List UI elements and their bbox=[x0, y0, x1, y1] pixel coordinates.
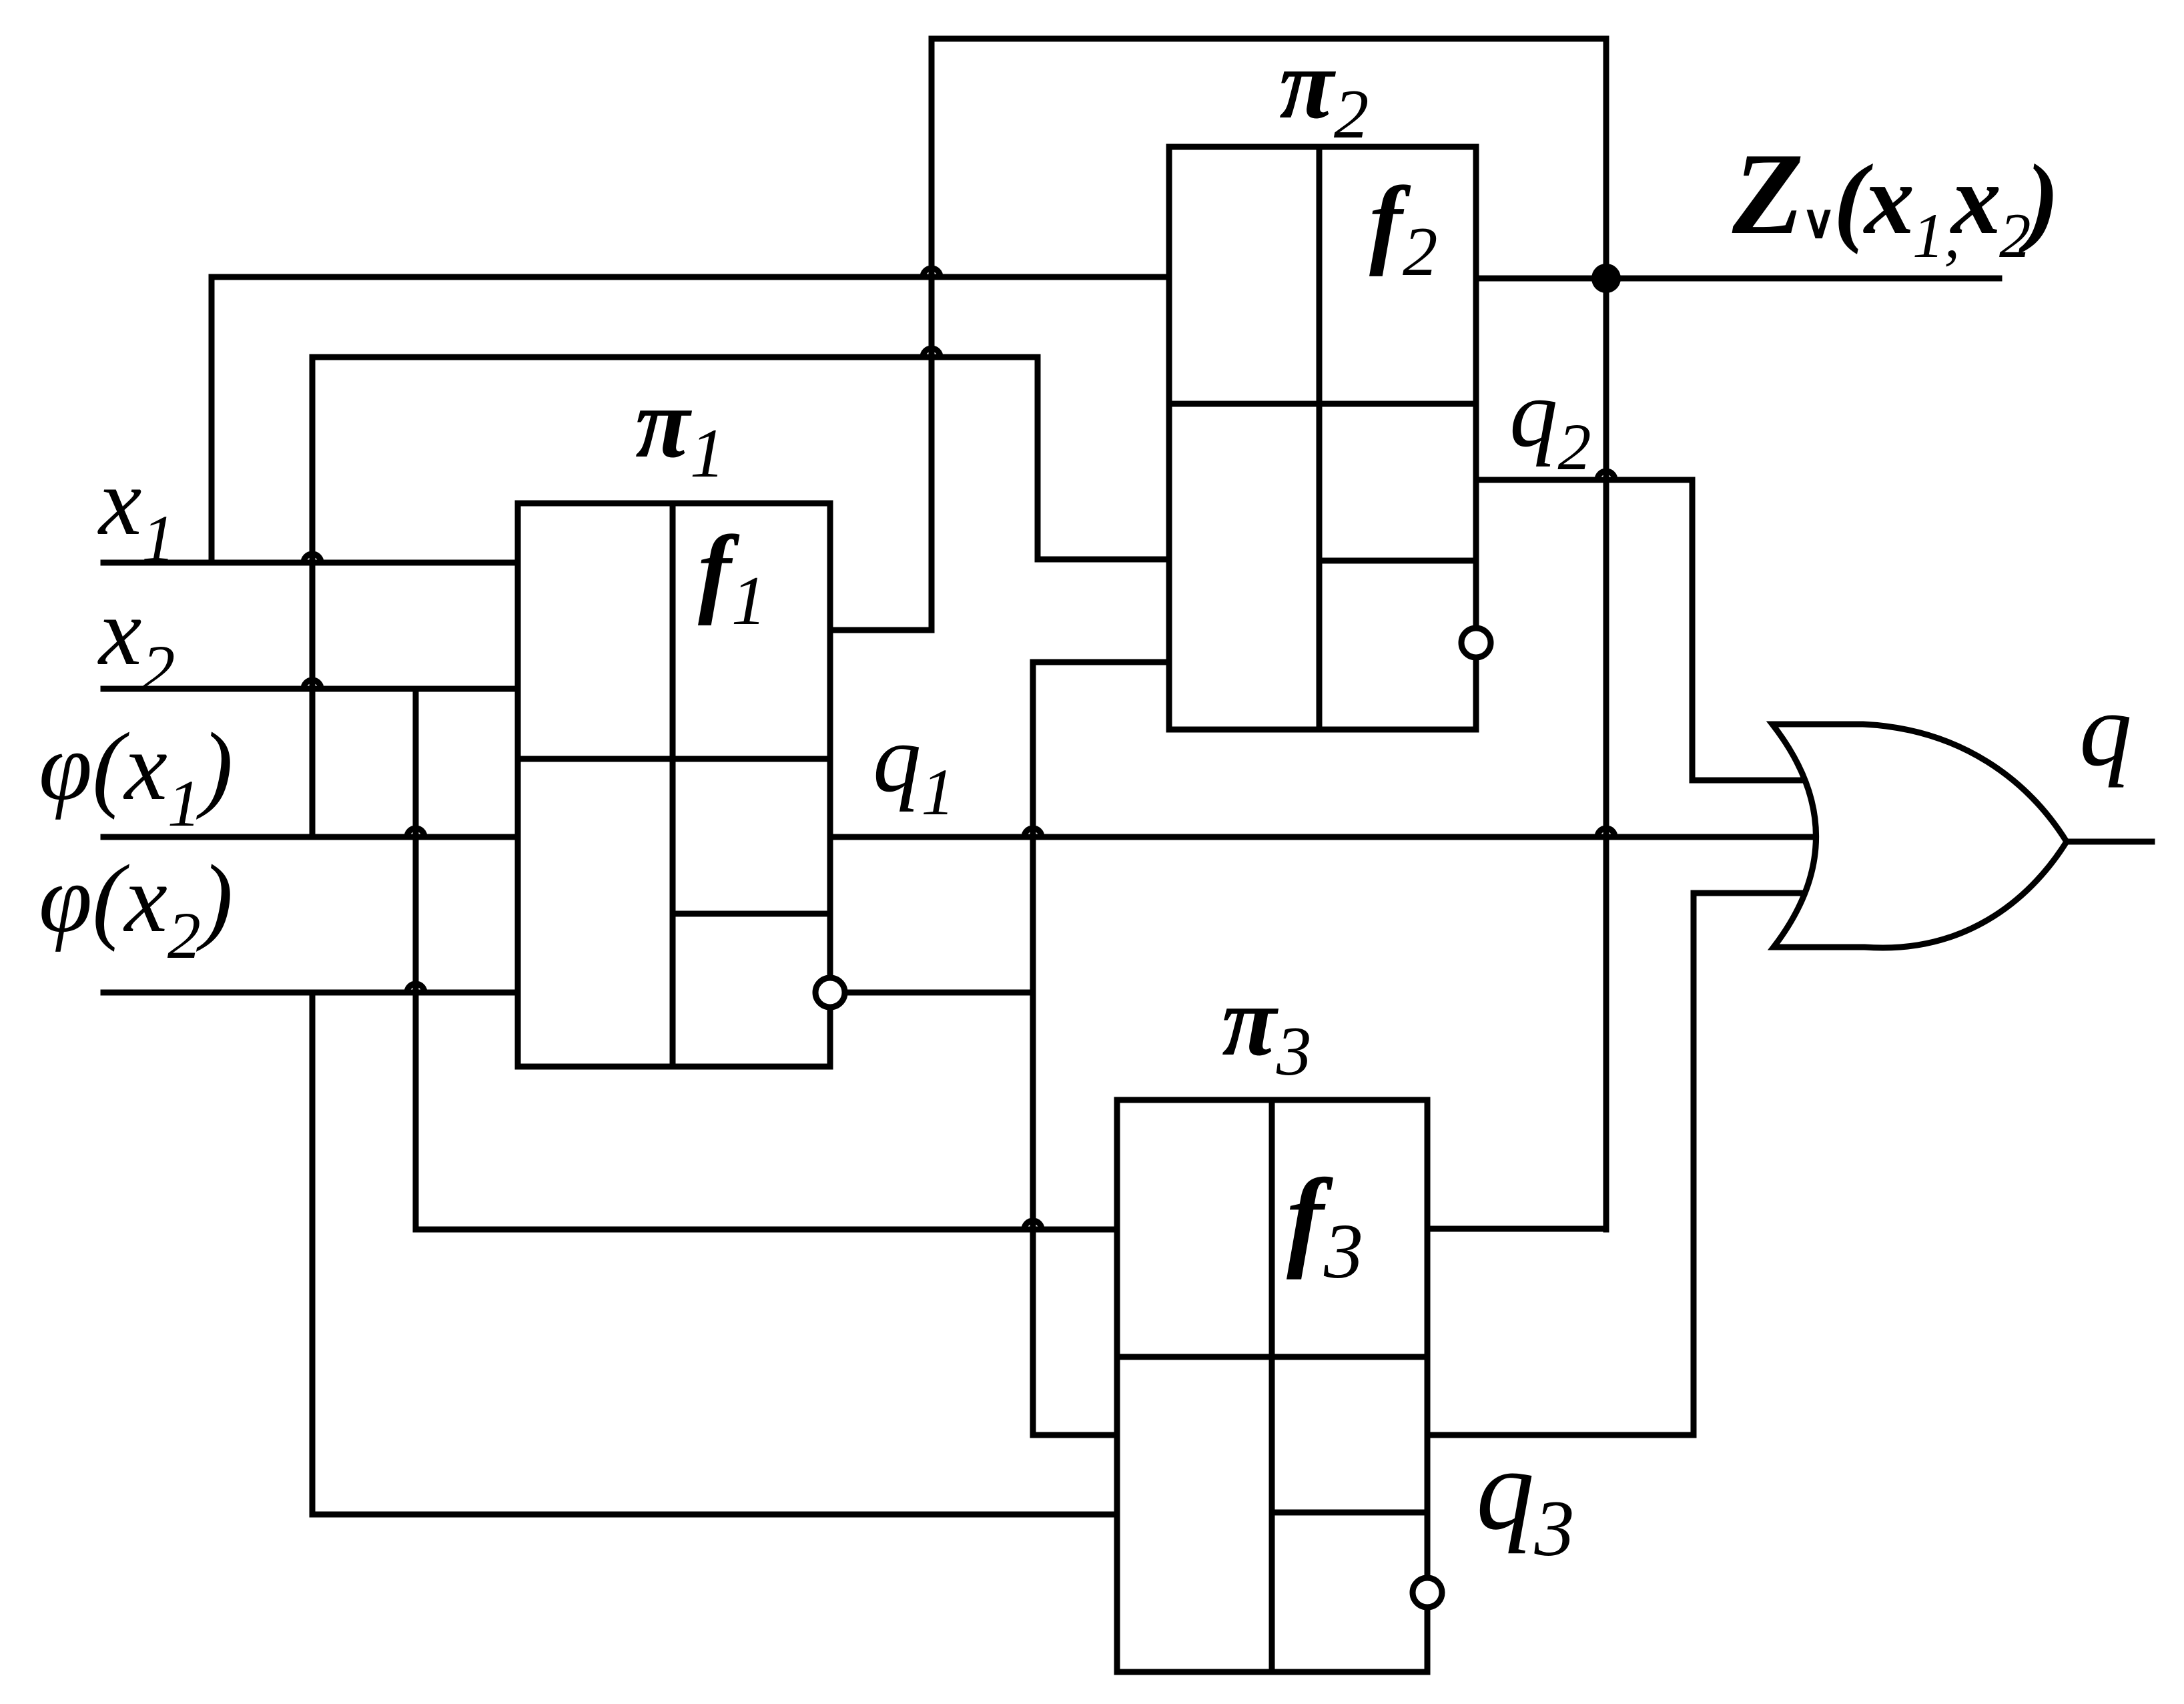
wire crossing hop on x1 line bbox=[304, 554, 321, 563]
wire q2 output bbox=[1476, 480, 1802, 780]
wire crossing hop on q2 line bbox=[1597, 471, 1615, 480]
wire crossing hop on q1 line at x=2407 bbox=[1597, 828, 1615, 837]
wire pi1 inverted output bbox=[845, 990, 1033, 996]
wire x2 dropper bbox=[413, 689, 419, 1229]
wire crossing hop on phi(x1) bus bbox=[923, 348, 940, 357]
wire x1 input line bbox=[103, 560, 518, 566]
wire q1 line from pi1 to OR gate bbox=[830, 834, 1812, 840]
wire Z output line bbox=[1476, 276, 1999, 282]
wire crossing hop on x2 feed line bbox=[1024, 1221, 1042, 1229]
inverter bubble pi3 bbox=[1413, 1578, 1442, 1607]
wire phi(x2) dropper bbox=[310, 992, 316, 1514]
wire f1 output to top rail bbox=[830, 39, 1606, 630]
wire pi1 inverted vertical link bbox=[1030, 662, 1036, 1435]
wire crossing hop on q1 line at x=1548 bbox=[1024, 828, 1042, 837]
block pi2 outline bbox=[1169, 147, 1476, 730]
junction dot on Z line bbox=[1591, 264, 1621, 293]
wire inverted link to pi3 bbox=[1033, 1432, 1117, 1438]
wire q3 output bbox=[1427, 893, 1802, 1435]
wire crossing hop on phi(x2) line bbox=[407, 984, 424, 992]
wire phi(x2) input line bbox=[103, 990, 518, 996]
wire crossing hop on x2 line bbox=[304, 680, 321, 689]
wire f1/f3 vertical to Z junction bbox=[1603, 39, 1609, 1229]
wire x2 input line bbox=[103, 686, 518, 692]
wire phi(x1) bus to pi2 bbox=[312, 357, 1169, 559]
wire f3 output bbox=[1427, 1226, 1606, 1232]
wire crossing hop on x1 bus bbox=[923, 268, 940, 277]
wire inverted link to pi2 bbox=[1033, 659, 1169, 665]
inverter bubble pi2 bbox=[1461, 628, 1491, 657]
wire OR gate output q bbox=[2067, 839, 2152, 845]
wire x1 riser to top bus bbox=[209, 277, 215, 563]
wire phi(x1) input line bbox=[103, 834, 518, 840]
wire crossing hop on phi(x1) line bbox=[407, 828, 424, 837]
wire phi(x1) riser bbox=[310, 357, 316, 837]
block pi1 outline bbox=[518, 503, 830, 1067]
inverter bubble pi1 bbox=[815, 978, 845, 1007]
wire x1 top bus to pi2 bbox=[212, 274, 1169, 280]
wire phi(x2) feed to pi3 bbox=[312, 1512, 1117, 1518]
block pi3 outline bbox=[1117, 1100, 1427, 1672]
svg-text:q: q bbox=[2079, 671, 2132, 788]
or-gate body bbox=[1772, 724, 2067, 948]
wire x2 feed to pi3 bbox=[416, 1227, 1117, 1233]
